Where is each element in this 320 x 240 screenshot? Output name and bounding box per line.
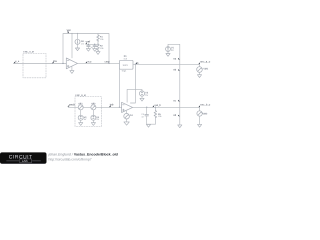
node flag VCC on rail xyxy=(67,28,72,34)
ground below VM2 xyxy=(198,124,202,127)
svg-text:vcc: vcc xyxy=(67,28,72,32)
wire between sources xyxy=(83,106,91,108)
resistor R5 xyxy=(154,107,157,124)
dashed box encoder model A xyxy=(23,53,46,77)
svg-text:5V: 5V xyxy=(96,118,99,121)
svg-text:ENC_A_M: ENC_A_M xyxy=(23,51,34,54)
ground below VS2 xyxy=(140,98,144,101)
source SRC2 (in series, right) xyxy=(91,105,96,110)
svg-text:10k: 10k xyxy=(100,38,104,41)
ground below U1 xyxy=(70,71,74,74)
junction rail-IS1 xyxy=(77,33,78,34)
svg-text:ina: ina xyxy=(53,60,57,63)
capacitor C2 xyxy=(87,44,90,48)
svg-text:5V: 5V xyxy=(84,118,87,121)
ground below VS1 xyxy=(166,54,170,57)
wire SRC2 to VS4 xyxy=(92,110,94,115)
wire VS2 to U2 V+ xyxy=(127,89,142,102)
node flag fb (after X1) xyxy=(135,62,139,65)
feedback wire loop (rail) xyxy=(63,34,109,64)
ground below VM1 xyxy=(197,75,201,78)
svg-text:enc_a_o: enc_a_o xyxy=(200,61,211,64)
node flag va (top right output) xyxy=(198,61,210,65)
svg-text:VM1: VM1 xyxy=(203,68,208,71)
source SRC1 (in series, left) xyxy=(78,105,83,110)
svg-text:vref: vref xyxy=(86,40,91,43)
resistor R2 (lower of divider) xyxy=(97,44,100,52)
wire V+ supply of U1 xyxy=(71,34,73,58)
node flag enc_b (bottom-left) xyxy=(67,104,75,107)
svg-text:na: na xyxy=(173,57,176,60)
wire U1 output to X1 xyxy=(78,62,120,64)
node flag vb (bottom right output) xyxy=(198,104,210,108)
svg-text:http://circuitlab.com/c/8nmp7: http://circuitlab.com/c/8nmp7 xyxy=(49,157,92,161)
wire input to op-amp U1 xyxy=(14,63,66,65)
ground below R2 xyxy=(96,52,100,55)
svg-text:nd: nd xyxy=(173,114,176,117)
node flag out xyxy=(152,104,161,107)
svg-text:ENC_B_M: ENC_B_M xyxy=(75,94,86,97)
svg-text:1m: 1m xyxy=(81,43,84,46)
node flag in_b (before U2) xyxy=(109,104,114,108)
svg-text:10k: 10k xyxy=(158,115,162,118)
ground below C3 xyxy=(93,49,97,52)
ground below VS3 xyxy=(79,123,83,126)
wire SRC2 to U2 xyxy=(96,106,122,108)
ground below AM1 xyxy=(124,122,129,125)
node flag rail 4 xyxy=(173,114,179,117)
junction rail-V+ xyxy=(71,33,72,34)
ground below VS4 xyxy=(91,123,95,126)
source VS3 xyxy=(78,115,83,120)
wire X1 out to right xyxy=(133,63,200,65)
dashed box encoder model B xyxy=(75,97,101,127)
wire U2 output xyxy=(133,106,200,108)
svg-text:SW1: SW1 xyxy=(123,64,129,67)
wire U2 V- to AM1 xyxy=(126,111,128,113)
source VS1 (top right supply) xyxy=(166,47,171,52)
svg-text:10k: 10k xyxy=(100,47,104,50)
svg-text:SF1: SF1 xyxy=(78,102,83,105)
junction divider node xyxy=(97,44,98,45)
node flag ENC_A (top-left input) xyxy=(13,60,20,64)
footer credit text xyxy=(48,152,118,161)
svg-text:inb: inb xyxy=(110,104,114,107)
node flag rail 2 xyxy=(173,69,179,72)
wire vref node xyxy=(86,43,98,45)
svg-text:LAB: LAB xyxy=(22,159,28,163)
op-amp U1 xyxy=(66,58,77,69)
wire X1 bottom drop to bottom net xyxy=(118,69,120,107)
junction fb xyxy=(135,63,136,64)
ground below IS1 xyxy=(75,48,79,51)
current source IS1 xyxy=(75,34,80,49)
node flag rail 1 xyxy=(173,57,179,60)
wire RC bottom join xyxy=(147,123,156,125)
svg-text:VM2: VM2 xyxy=(203,113,208,116)
wire to voltmeter VM2 xyxy=(199,107,201,111)
junction C5 xyxy=(146,107,147,108)
svg-text:nc: nc xyxy=(173,99,176,102)
junction R5 xyxy=(155,107,156,108)
svg-text:nb: nb xyxy=(173,69,176,72)
wire VS4 to ground xyxy=(92,120,94,122)
voltmeter VM1 xyxy=(197,67,203,73)
ammeter AM1 xyxy=(124,113,130,119)
junction left drop xyxy=(62,63,63,64)
svg-text:e_a: e_a xyxy=(15,60,20,63)
ground below C2 xyxy=(86,49,90,52)
capacitor C3 xyxy=(93,44,96,48)
wire AM1 to ground xyxy=(126,119,128,122)
junction C2 xyxy=(88,44,89,45)
svg-text:trig1: trig1 xyxy=(122,69,127,72)
svg-text:SF2: SF2 xyxy=(91,102,96,105)
wire VS1 to rail xyxy=(168,44,180,125)
wire VM2 to ground xyxy=(199,116,201,124)
wire VS3 to ground xyxy=(80,120,82,122)
op-amp U2 xyxy=(122,102,133,112)
wire VS1 to ground xyxy=(167,51,169,53)
junction right drop xyxy=(108,63,109,64)
svg-text:5V: 5V xyxy=(145,94,148,97)
svg-text:cmp: cmp xyxy=(105,60,110,63)
wire V- of U1 xyxy=(71,67,73,71)
svg-text:enc_b_o: enc_b_o xyxy=(200,104,211,107)
wire VS2 to ground xyxy=(141,96,143,98)
node flag rail 3 xyxy=(173,99,179,102)
box X1 xyxy=(119,60,133,69)
ground bottom of rail xyxy=(178,125,182,128)
svg-text:encb: encb xyxy=(69,104,75,107)
node flag in_a (before op-amp) xyxy=(52,60,57,64)
footer logo bar xyxy=(0,152,47,163)
source VS4 xyxy=(91,115,96,120)
wire bottom input xyxy=(68,106,78,108)
resistor R1 (upper of divider) xyxy=(97,34,100,44)
wire SRC1 to VS3 xyxy=(80,110,82,115)
wire to voltmeter VM1 xyxy=(199,64,201,66)
svg-text:A1: A1 xyxy=(130,114,134,117)
source VS2 (supply of U2) xyxy=(139,91,144,96)
node flag vref xyxy=(85,40,90,44)
wire feedback to U2 minus xyxy=(130,64,135,103)
svg-text:5V: 5V xyxy=(171,49,174,52)
ground below RC xyxy=(146,124,150,127)
svg-text:johan.Englund / Vastus_Encoder: johan.Englund / Vastus_EncoderBlock_old xyxy=(48,152,118,156)
junction C3 xyxy=(94,44,95,45)
capacitor C5 xyxy=(145,107,149,124)
junction X1 drop xyxy=(119,107,120,108)
wire VM1 to ground xyxy=(199,72,201,74)
svg-text:out_b: out_b xyxy=(154,104,161,107)
node flag vco (on U1 output) xyxy=(85,61,92,64)
voltmeter VM2 xyxy=(197,111,202,116)
